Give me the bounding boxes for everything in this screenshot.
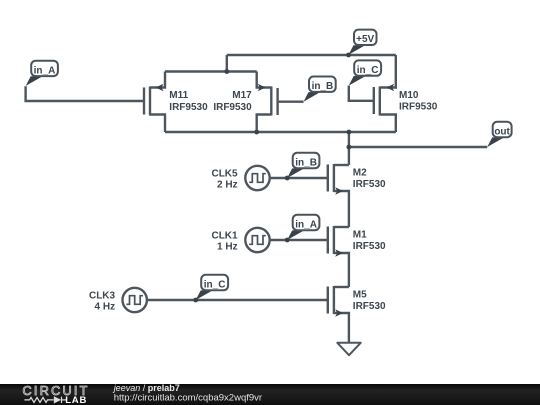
svg-text:in_A: in_A xyxy=(295,219,317,230)
svg-text:in_B: in_B xyxy=(312,81,334,92)
svg-text:M5: M5 xyxy=(353,290,367,301)
svg-text:M2: M2 xyxy=(353,168,367,179)
svg-text:in_C: in_C xyxy=(204,279,226,290)
svg-text:jeevan / prelab7: jeevan / prelab7 xyxy=(113,383,180,393)
svg-text:M17: M17 xyxy=(232,90,252,101)
svg-text:M10: M10 xyxy=(399,90,419,101)
svg-text:2 Hz: 2 Hz xyxy=(217,179,238,190)
svg-text:IRF9530: IRF9530 xyxy=(399,102,438,113)
svg-text:CLK3: CLK3 xyxy=(89,291,116,302)
svg-text:IRF530: IRF530 xyxy=(353,179,386,190)
svg-text:IRF530: IRF530 xyxy=(353,241,386,252)
svg-text:IRF530: IRF530 xyxy=(353,301,386,312)
svg-text:in_A: in_A xyxy=(34,65,56,76)
svg-text:IRF9530: IRF9530 xyxy=(169,102,208,113)
svg-text:in_B: in_B xyxy=(295,157,317,168)
svg-text:in_C: in_C xyxy=(357,65,379,76)
svg-text:http://circuitlab.com/cqba9x2w: http://circuitlab.com/cqba9x2wqf9vr xyxy=(114,393,262,404)
svg-text:4 Hz: 4 Hz xyxy=(95,302,116,313)
svg-text:IRF9530: IRF9530 xyxy=(213,102,252,113)
svg-text:CLK1: CLK1 xyxy=(211,231,238,242)
svg-text:CLK5: CLK5 xyxy=(211,169,238,180)
svg-text:+5V: +5V xyxy=(356,34,374,45)
svg-text:M1: M1 xyxy=(353,230,367,241)
svg-text:out: out xyxy=(494,126,510,137)
svg-text:1 Hz: 1 Hz xyxy=(217,241,238,252)
svg-text:M11: M11 xyxy=(169,90,188,101)
svg-text:LAB: LAB xyxy=(65,395,87,405)
